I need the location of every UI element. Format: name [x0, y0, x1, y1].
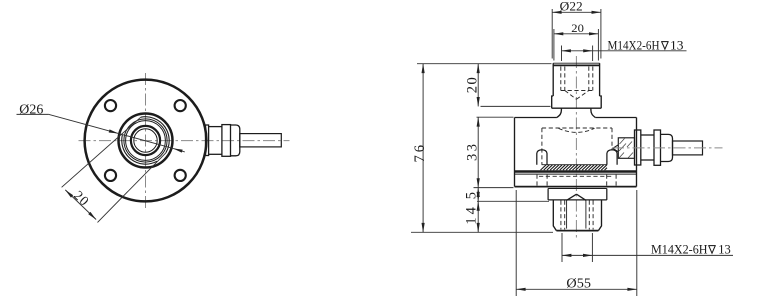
gland dome cap	[231, 125, 240, 156]
boss top thick line	[553, 64, 599, 66]
cable gland assembly, front view	[206, 125, 282, 157]
ext line Ø22 left	[551, 9, 553, 59]
depth symbol top: bar	[661, 41, 668, 43]
thin circle r19.9	[126, 121, 166, 161]
stud thread flat right	[585, 201, 587, 229]
M14 top dimension line	[562, 50, 593, 52]
ext line flange bottom	[474, 187, 514, 189]
gland stem bottom edge	[209, 153, 222, 155]
hatch strip top edge	[542, 164, 608, 166]
round nut arc with flats (segment 2)	[122, 135, 157, 164]
bolt hole top-right	[175, 100, 186, 111]
dimension line 76	[422, 64, 424, 233]
cable (side)	[673, 141, 703, 155]
inner thin circle	[134, 129, 157, 152]
gland washer	[206, 125, 209, 156]
stud left side with chamfer	[553, 200, 556, 231]
neck right fillet	[591, 108, 595, 117]
centerline vertical (side view axis)	[575, 56, 577, 240]
bolt hole bottom-left	[105, 170, 116, 181]
gland nut	[222, 125, 231, 157]
body top edge right segment	[595, 117, 636, 119]
M14 top ext right	[592, 46, 594, 62]
thread major dia left	[560, 67, 562, 91]
step right side	[606, 189, 608, 200]
M14 bottom ext left	[561, 233, 563, 262]
drill point V right	[576, 91, 588, 100]
diaphragm seam thick line	[515, 170, 637, 172]
gland stem bottom edge (side)	[641, 159, 654, 161]
M14 bottom leader to text	[592, 254, 733, 256]
ext line collar bottom	[481, 105, 551, 107]
hidden line in flange	[539, 175, 613, 177]
round nut arc with flats (segment 1)	[141, 117, 169, 153]
thread minor dia right	[588, 67, 590, 91]
stud thread flat left	[566, 201, 568, 229]
Ø26 dimension line across circle	[118, 133, 173, 148]
svg-text:20: 20	[571, 21, 584, 35]
cable exit block (sectioned)	[613, 138, 635, 159]
boss left side	[552, 63, 554, 96]
svg-text:13: 13	[718, 242, 731, 256]
ext line Ø22 right	[600, 9, 602, 59]
hidden cavity outline (dashed)	[537, 128, 616, 186]
gland stem top edge (side)	[641, 134, 654, 136]
body right edge	[636, 118, 638, 187]
stud thread dashed 3	[588, 201, 590, 230]
M14 bottom dimension line	[562, 254, 592, 256]
dimension line Ø22	[552, 11, 601, 13]
diaphragm dip dashed curve	[559, 128, 595, 132]
boss right side	[599, 63, 601, 96]
stud thread dashed 1	[560, 201, 562, 230]
M14 bottom ext right	[591, 233, 593, 262]
bolt hole top-left	[105, 100, 116, 111]
left tab side hidden right	[546, 175, 548, 187]
neck left fillet	[557, 108, 562, 117]
centerline vertical (front view)	[145, 73, 147, 210]
drill point V left	[565, 91, 577, 100]
right tab side hidden left	[606, 175, 608, 187]
boss outer circle	[119, 114, 173, 168]
bottom boss step	[548, 189, 607, 201]
gland dome cap (side)	[661, 134, 673, 161]
cable	[240, 134, 281, 147]
svg-text:20: 20	[464, 77, 480, 93]
thread cone left	[567, 194, 577, 200]
dimension line 33	[477, 117, 479, 187]
top boss internal thread (hidden)	[561, 67, 593, 100]
svg-text:5: 5	[463, 192, 479, 199]
Ø55 ext left	[515, 190, 517, 296]
thin circle r21.6	[124, 119, 167, 162]
dimension line 14	[477, 201, 479, 232]
depth symbol top: V	[662, 42, 669, 50]
right pillar tab	[607, 150, 617, 165]
cavity top dashed	[542, 127, 612, 129]
ext line step bottom	[477, 200, 549, 202]
body top edge left segment	[515, 117, 557, 119]
ext line 20 right	[597, 29, 599, 61]
M14 top leader to text	[593, 50, 687, 52]
section hatching of diaphragm strip	[541, 165, 608, 170]
top boss	[552, 63, 602, 117]
left tab side hidden left	[536, 175, 538, 187]
thread cone right	[577, 194, 586, 200]
bottom stud hidden thread lines	[561, 201, 593, 230]
extension line lower (flat chord)	[98, 153, 166, 223]
right tab side hidden right	[615, 175, 617, 187]
depth symbol bottom: V	[709, 246, 716, 254]
dimension line Ø55	[516, 288, 637, 290]
svg-text:Ø22: Ø22	[560, 0, 583, 13]
dimension line 5	[477, 188, 479, 202]
block outline	[618, 138, 634, 159]
boss top thin line	[553, 62, 599, 64]
Ø26 far-side arrow segment	[173, 148, 185, 152]
drill cone lower	[613, 148, 619, 152]
center hole thick circle	[131, 126, 160, 155]
cavity left wall dashed	[541, 128, 543, 165]
body left edge	[514, 118, 516, 187]
left pillar tab	[537, 150, 547, 165]
seam lower thin line	[515, 173, 637, 175]
dimension 20 across flats (rotated)	[62, 117, 166, 222]
cable gland assembly, side view	[635, 130, 703, 165]
thread depth line	[561, 90, 593, 92]
collar bottom edge	[552, 107, 602, 109]
flange bottom edge	[515, 186, 637, 188]
extension line upper (flat chord)	[62, 117, 141, 187]
dimension line 20 vertical	[477, 64, 479, 107]
step left side	[547, 189, 549, 200]
Ø26 text underline	[17, 113, 49, 115]
M14 top ext left	[561, 46, 563, 62]
gland nut (side)	[654, 130, 661, 165]
step bottom line	[548, 199, 607, 201]
svg-text:Ø55: Ø55	[566, 276, 591, 291]
drill cone upper	[613, 145, 619, 149]
gland stem top edge	[209, 126, 222, 128]
centerline horizontal (cable axis, side view)	[612, 147, 723, 149]
Ø55 ext right	[636, 190, 638, 296]
flange outer circle	[85, 80, 207, 202]
stud thread dashed 2	[564, 201, 566, 230]
dimension Ø26 leader	[17, 114, 185, 151]
ext line 20 left	[553, 29, 555, 61]
Ø26 leader segment with arrow to circle	[49, 114, 118, 133]
gland washer (side)	[635, 130, 641, 165]
block hatching	[619, 139, 633, 159]
thread minor dia left	[564, 67, 566, 91]
stud right side with chamfer	[598, 200, 601, 231]
svg-text:M14X2-6H: M14X2-6H	[651, 242, 708, 256]
thread major dia right	[592, 67, 594, 91]
centerline horizontal (front view)	[79, 140, 290, 142]
svg-text:13: 13	[670, 38, 684, 52]
ext line top of boss (left stack)	[417, 63, 552, 65]
svg-text:Ø26: Ø26	[19, 102, 43, 117]
bottom stud	[553, 200, 601, 231]
svg-text:M14X2-6H: M14X2-6H	[608, 38, 660, 52]
collar step left	[552, 96, 554, 108]
ext line body top	[477, 116, 514, 118]
dimension line 20 top	[554, 33, 599, 35]
depth symbol bottom: bar	[708, 245, 715, 247]
collar step right	[600, 96, 602, 108]
stud thread dashed 4	[592, 201, 594, 230]
cavity right wall dashed	[611, 128, 613, 150]
bolt hole bottom-right	[175, 170, 186, 181]
step top line	[548, 188, 607, 190]
stud bottom edge	[556, 230, 598, 232]
dimension line 20	[65, 190, 96, 220]
ext line stud bottom	[411, 231, 553, 233]
